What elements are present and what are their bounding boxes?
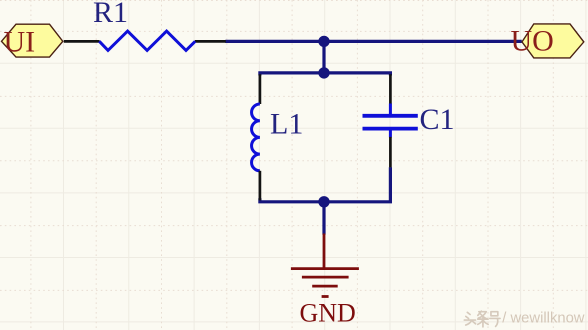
junction B (LC loop top) [318,67,329,78]
ground GND symbol [291,234,359,297]
pin: resistor R1 right [195,40,226,43]
pin: inductor L1 top [259,74,262,104]
watermark "头条号 / wewillknow" [464,311,500,327]
svg-text:L1: L1 [270,108,303,141]
svg-text:C1: C1 [420,103,455,136]
wire: main horizontal node UI/UO [225,40,522,43]
svg-text:UI: UI [4,26,36,59]
svg-text:UO: UO [511,25,554,58]
svg-text:R1: R1 [93,0,128,29]
wire: LC loop bottom [260,167,391,202]
pin: UI port to resistor R1 [64,40,100,43]
pin: inductor L1 bottom [259,171,262,201]
wire: LC loop top [260,73,391,76]
resistor R1 [99,31,195,50]
pin: capacitor C1 bottom [389,137,392,168]
junction A (top node) [318,36,329,47]
capacitor C1 [363,104,418,138]
port UI [2,24,63,57]
junction C (LC loop bottom) [318,196,329,207]
svg-text:/ wewillknow: / wewillknow [502,311,585,327]
wire: vertical from junction A down to LC top [322,41,325,73]
wire: junction C down to ground [322,202,325,235]
svg-text:GND: GND [300,299,356,328]
port UO [522,24,584,58]
pin: capacitor C1 top [389,74,392,104]
inductor L1 (4 arcs) [252,104,260,171]
